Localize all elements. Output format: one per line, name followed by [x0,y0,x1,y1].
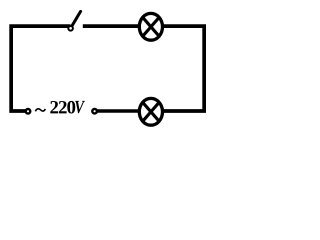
label: ~ (AC symbol) [35,109,45,112]
wire: terminal 2 to bottom lamp [96,109,146,113]
terminal 2 (source right terminal) [92,109,97,114]
wire: top-left segment, left side, bottom-left segment to terminal 1 [11,26,70,111]
wire: top lamp right, right side, down to bottom lamp right [157,26,204,111]
lamp L2: circle [139,98,162,125]
label: V (italic volt unit) [75,101,85,113]
label: 220 digit 0 [67,101,75,114]
wire: switch to top lamp [83,24,145,28]
label: 220 second digit 2 [59,101,67,113]
lamp L1: circle [139,13,162,40]
label: 220 first digit 2 [50,101,58,113]
lamp L2: X cross [142,102,159,122]
switch S: hinge dot [68,26,73,31]
terminal 1 (source left terminal) [26,109,31,114]
switch S: arm [71,11,81,27]
lamp L1: X cross [142,17,159,37]
